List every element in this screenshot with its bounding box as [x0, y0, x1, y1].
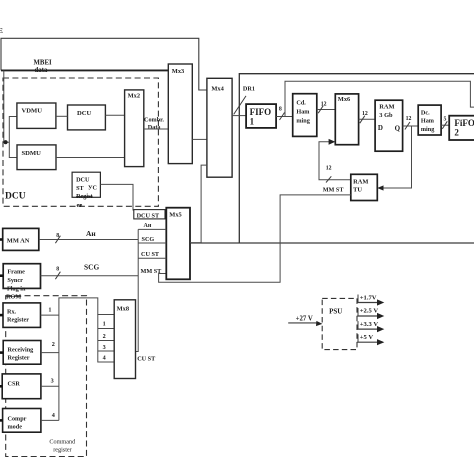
block RAM TU: [351, 174, 378, 200]
block PSU (dashed): [322, 298, 357, 349]
svg-text:DR1: DR1: [243, 86, 255, 93]
svg-text:RAM: RAM: [379, 104, 394, 111]
svg-text:Receiving: Receiving: [8, 347, 35, 354]
svg-text:1: 1: [250, 117, 255, 127]
svg-text:mode: mode: [8, 424, 23, 431]
wire Receiving Register to bus: [41, 352, 59, 354]
wire: command register bus to Mx8 cells: [59, 298, 98, 421]
wire: MM AN input stub: [0, 238, 3, 241]
svg-text:12: 12: [326, 166, 332, 172]
block DCU ST register: [72, 172, 100, 197]
wire junction down to RAM TU with arrow: [377, 126, 411, 188]
mux Mx3: [168, 64, 192, 164]
wire: left vertical from MBEI line: [4, 70, 10, 142]
svg-text:+27 V: +27 V: [296, 315, 313, 322]
block DCU ST input label box: [134, 210, 165, 219]
wire SCG input stub: [138, 242, 166, 244]
wire VDMU to DCU: [56, 115, 68, 117]
svg-text:3 Gb: 3 Gb: [379, 112, 393, 119]
svg-text:Mx2: Mx2: [128, 93, 140, 100]
wire: long bottom bus line: [190, 242, 474, 244]
block DCU: [68, 105, 106, 130]
input cells column of Mx8: [98, 315, 114, 363]
svg-text:5: 5: [444, 117, 447, 123]
block FiFO2: [449, 116, 474, 140]
svg-text:MM AN: MM AN: [7, 238, 30, 245]
wire: branch to VDMU and SDMU: [9, 117, 17, 158]
svg-text:Rx.: Rx.: [7, 308, 17, 315]
svg-text:D: D: [378, 124, 383, 132]
svg-text:1: 1: [48, 307, 51, 314]
dashed box command register: [6, 296, 87, 457]
mux Mx2: [125, 90, 144, 167]
svg-text:+1.7V: +1.7V: [360, 294, 377, 301]
wire Comp mode to bus: [41, 419, 59, 421]
svg-text:DCU ST: DCU ST: [137, 213, 160, 220]
svg-text:ST: ST: [76, 185, 84, 192]
wire RAM Q to Dc.Hamming: [403, 125, 419, 127]
wire from Mx4 left edge down to bottom bus: [201, 165, 207, 243]
svg-text:Mx8: Mx8: [117, 305, 129, 312]
svg-text:VDMU: VDMU: [22, 108, 43, 115]
wire: Rs input stub: [0, 314, 3, 317]
svg-text:1: 1: [103, 320, 106, 327]
wire MM ST feed to Mx6 and RAM TU: [319, 142, 351, 180]
wire MM ST from Mx5 area to RAM TU: [159, 195, 351, 282]
svg-text:4: 4: [52, 412, 55, 419]
wire SDMU to Mx2: [56, 157, 125, 159]
wire Mx4 to FIFO1: [232, 115, 246, 117]
mux Mx5: [166, 208, 190, 280]
wire: vertical bus to Mx8 CU ST: [136, 229, 139, 351]
block Frame Syncr: [3, 264, 40, 289]
svg-text:3: 3: [51, 378, 54, 385]
svg-text:er: er: [77, 202, 83, 209]
svg-text:CSR: CSR: [8, 381, 21, 388]
block Rs Register: [3, 303, 41, 328]
svg-text:Е: Е: [0, 26, 3, 35]
svg-text:УС: УС: [88, 185, 97, 192]
svg-text:TU: TU: [353, 187, 362, 194]
svg-text:SDMU: SDMU: [22, 150, 42, 157]
svg-text:FiFO: FiFO: [454, 118, 474, 128]
svg-text:CU ST: CU ST: [141, 251, 160, 258]
wire CU ST input stub: [138, 257, 166, 259]
svg-text:Frame: Frame: [7, 269, 25, 276]
svg-text:Mx5: Mx5: [169, 212, 181, 219]
svg-text:Register: Register: [7, 317, 29, 324]
wire Dc.Hamming to FiFO2: [441, 124, 449, 126]
svg-text:FIFO: FIFO: [250, 107, 272, 117]
svg-text:Compr: Compr: [8, 416, 27, 423]
arrowhead into Mx6: [329, 139, 336, 145]
svg-text:12: 12: [406, 116, 412, 122]
wire: CSR input stub: [0, 385, 2, 388]
svg-text:MM ST: MM ST: [141, 268, 163, 275]
wire Cd.Hamming to Mx6: [317, 109, 336, 111]
wire: Receiving input stub: [0, 351, 3, 354]
block CSR: [2, 374, 41, 399]
svg-text:Dc.: Dc.: [421, 110, 430, 117]
svg-text:Ham: Ham: [296, 109, 310, 116]
wire Mx3 to Mx4: [192, 138, 207, 140]
svg-text:2: 2: [52, 341, 55, 348]
svg-text:DCU: DCU: [77, 110, 92, 117]
wire Mx6 to RAM D: [359, 118, 376, 120]
svg-text:Combr.: Combr.: [144, 117, 164, 124]
svg-text:Syncr: Syncr: [7, 277, 23, 284]
svg-text:ming: ming: [296, 118, 310, 125]
svg-text:MBEI: MBEI: [34, 60, 52, 67]
block FIFO1: [246, 104, 276, 128]
wire Mx2 to Mx3 (Combr. Data): [144, 128, 169, 130]
wire +27V into PSU with arrow: [288, 322, 319, 324]
wire Mx5 output to bottom bus: [190, 242, 201, 244]
svg-text:Register: Register: [8, 355, 30, 362]
svg-text:DCU: DCU: [5, 192, 26, 202]
svg-text:register: register: [53, 447, 72, 454]
svg-text:+2.5 V: +2.5 V: [360, 308, 379, 315]
wire DCU to Mx2: [105, 114, 124, 116]
junction dot: [4, 140, 8, 144]
svg-text:8: 8: [279, 107, 282, 113]
svg-text:CU ST: CU ST: [137, 356, 156, 363]
svg-text:3: 3: [103, 344, 106, 351]
svg-text:RAM: RAM: [353, 179, 368, 186]
wire: MBEI data thick line into Mx3: [1, 69, 168, 71]
wire FIFO1 to Cd.Hamming: [276, 116, 293, 118]
wire CSR to bus: [41, 385, 59, 387]
mux Mx6: [335, 94, 358, 145]
block RAM 3Gb: [375, 100, 403, 151]
svg-text:Mx3: Mx3: [172, 68, 184, 75]
svg-text:Flag in: Flag in: [7, 285, 26, 292]
wire Rs Register to bus: [41, 314, 59, 316]
wire: Frame input stub: [0, 274, 3, 277]
block Comp mode: [3, 409, 41, 433]
wire MM AN to Mx5 An: [39, 239, 138, 241]
svg-text:+3.3 V: +3.3 V: [360, 321, 379, 328]
block Receiving Register: [3, 341, 41, 365]
svg-text:4: 4: [103, 354, 106, 361]
svg-text:Q: Q: [395, 125, 401, 133]
block SDMU: [17, 145, 56, 170]
svg-text:Ан: Ан: [86, 229, 96, 238]
svg-text:2: 2: [103, 333, 106, 340]
svg-text:2: 2: [454, 128, 459, 138]
svg-text:SCG: SCG: [142, 236, 155, 243]
block MM AN: [3, 228, 39, 250]
svg-text:Ан: Ан: [144, 223, 152, 229]
svg-text:DCU: DCU: [76, 177, 90, 184]
wire: Comp mode input stub: [0, 419, 3, 422]
wire An input stub: [138, 228, 166, 230]
svg-text:Command: Command: [49, 439, 76, 446]
svg-text:Regist: Regist: [76, 193, 93, 200]
svg-text:MM ST: MM ST: [323, 187, 345, 194]
block Cd.Hamming coder: [293, 94, 317, 137]
svg-text:+5 V: +5 V: [360, 334, 374, 341]
svg-text:Data: Data: [148, 124, 161, 131]
svg-text:Cd.: Cd.: [296, 100, 306, 107]
wire Frame Syncr to Mx5 SCG: [41, 275, 139, 277]
svg-text:Mx6: Mx6: [338, 96, 351, 103]
arrowhead into RAM TU: [377, 185, 383, 190]
block Dc.Hamming decoder: [418, 105, 441, 135]
svg-text:SCG: SCG: [84, 263, 99, 272]
wire: inner feedback line from FIFO1 node to FiFO2: [285, 81, 474, 116]
block VDMU: [17, 103, 56, 128]
svg-text:PSU: PSU: [329, 308, 342, 316]
frame: memory section outline (left+top): [239, 74, 474, 243]
wire DCU ST register to DCU ST input box: [100, 184, 133, 210]
bus slash DR1: [234, 96, 246, 115]
wire: long top bus line: [1, 38, 207, 90]
svg-text:8: 8: [56, 267, 59, 273]
mux Mx8: [114, 300, 135, 379]
svg-text:Ham: Ham: [421, 118, 435, 125]
svg-text:ming: ming: [421, 126, 435, 133]
svg-text:12: 12: [321, 102, 327, 108]
mux Mx4: [207, 78, 232, 177]
dashed box DCU unit: [3, 78, 158, 206]
svg-text:ROM: ROM: [6, 293, 21, 300]
svg-text:Mx4: Mx4: [211, 86, 224, 93]
